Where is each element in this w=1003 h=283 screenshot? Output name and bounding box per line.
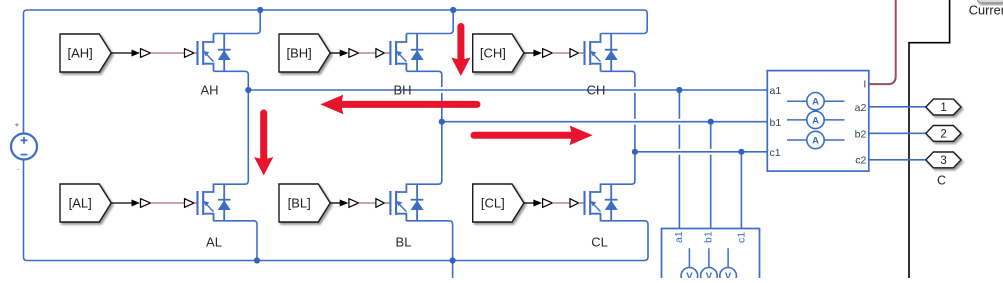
svg-text:BL: BL: [396, 235, 412, 250]
svg-text:-: -: [17, 165, 20, 174]
svg-text:AL: AL: [206, 235, 222, 250]
svg-text:3: 3: [940, 155, 946, 167]
svg-text:c2: c2: [855, 155, 866, 167]
svg-text:I: I: [863, 79, 866, 91]
svg-text:AH: AH: [200, 83, 218, 98]
svg-text:A: A: [812, 135, 819, 146]
svg-text:+: +: [15, 121, 20, 130]
svg-text:[BH]: [BH]: [287, 46, 312, 61]
svg-text:a1: a1: [770, 85, 782, 97]
svg-text:A: A: [812, 115, 819, 126]
svg-text:Current: Current: [969, 3, 1003, 18]
svg-text:CL: CL: [591, 235, 608, 250]
svg-text:c1: c1: [770, 147, 781, 159]
svg-text:[BL]: [BL]: [288, 196, 311, 211]
svg-text:b2: b2: [855, 128, 867, 140]
svg-text:V: V: [725, 271, 732, 278]
svg-text:[AL]: [AL]: [69, 196, 92, 211]
svg-text:1: 1: [940, 102, 946, 114]
svg-text:a2: a2: [855, 102, 867, 114]
svg-text:[AH]: [AH]: [68, 46, 93, 61]
svg-text:V: V: [706, 271, 713, 278]
svg-text:V: V: [686, 271, 693, 278]
svg-text:A: A: [812, 97, 819, 108]
svg-text:a1: a1: [673, 231, 685, 243]
svg-text:2: 2: [940, 129, 946, 141]
svg-text:b1: b1: [770, 117, 782, 129]
svg-text:b1: b1: [703, 231, 715, 243]
svg-text:c1: c1: [736, 232, 748, 243]
svg-text:BH: BH: [393, 83, 411, 98]
svg-text:CH: CH: [587, 83, 606, 98]
svg-text:C: C: [937, 173, 946, 187]
svg-text:[CL]: [CL]: [481, 196, 505, 211]
svg-text:[CH]: [CH]: [480, 46, 506, 61]
